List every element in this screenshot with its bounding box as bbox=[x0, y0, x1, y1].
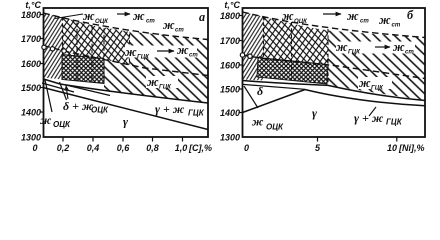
delta solidus thin bbox=[42, 83, 74, 92]
region ж_ОЦК steep strip right bbox=[243, 12, 264, 81]
svg-text:1400: 1400 bbox=[21, 108, 41, 118]
svg-text:1,0: 1,0 bbox=[175, 143, 188, 153]
svg-text:ст: ст bbox=[405, 49, 414, 56]
svg-text:1300: 1300 bbox=[21, 133, 41, 143]
svg-text:t,°C: t,°C bbox=[25, 0, 41, 10]
liquidus right S_botR bbox=[243, 81, 426, 101]
svg-text:10: 10 bbox=[387, 143, 397, 153]
svg-text:ОЦК: ОЦК bbox=[53, 120, 71, 129]
svg-text:1400: 1400 bbox=[220, 108, 240, 118]
svg-text:ОЦК: ОЦК bbox=[95, 18, 109, 25]
svg-text:1700: 1700 bbox=[220, 36, 240, 46]
vertical dashed line V2b bbox=[91, 25, 93, 82]
svg-text:δ + ж: δ + ж bbox=[63, 99, 94, 113]
svg-text:ж: ж bbox=[147, 75, 159, 89]
svg-text:1800: 1800 bbox=[21, 10, 41, 20]
svg-text:1700: 1700 bbox=[21, 34, 41, 44]
svg-text:1500: 1500 bbox=[220, 85, 240, 95]
svg-text:ж: ж bbox=[177, 43, 189, 57]
svg-text:1600: 1600 bbox=[21, 59, 41, 69]
ticks y right panel bbox=[239, 16, 397, 142]
svg-text:γ + ж: γ + ж bbox=[155, 102, 185, 116]
dashed line L3 mid bbox=[44, 46, 209, 76]
svg-text:ГЦК: ГЦК bbox=[386, 118, 403, 127]
svg-text:1600: 1600 bbox=[220, 61, 240, 71]
solid solidus S2 straight bbox=[43, 88, 208, 130]
delta region steep line 2 bbox=[60, 82, 67, 100]
svg-text:ст: ст bbox=[360, 18, 369, 25]
svg-text:ГЦК: ГЦК bbox=[159, 84, 172, 91]
svg-text:ж: ж bbox=[347, 9, 359, 23]
svg-text:ж: ж bbox=[282, 9, 294, 23]
dashed line L2R bbox=[243, 12, 426, 38]
svg-text:ж: ж bbox=[163, 18, 175, 32]
svg-text:б: б bbox=[407, 8, 414, 22]
delta region steep line 1 bbox=[45, 80, 52, 112]
svg-text:ГЦК: ГЦК bbox=[188, 109, 205, 118]
svg-text:ж: ж bbox=[133, 9, 145, 23]
vertical dashed line V3 bbox=[103, 29, 105, 84]
dashed line L3R bbox=[243, 55, 426, 79]
label ж_ГЦК -> ж_ст right bbox=[336, 42, 415, 54]
solidus rising left line bbox=[243, 90, 306, 113]
svg-text:ОЦК: ОЦК bbox=[266, 123, 284, 132]
svg-text:[C],%: [C],% bbox=[188, 143, 212, 153]
arrow from delta label bbox=[66, 86, 68, 100]
region ж_ГЦК band backslash hatch bbox=[104, 32, 208, 104]
vertical dashed V1R bbox=[263, 16, 265, 58]
svg-text:ж: ж bbox=[40, 113, 52, 127]
ticks x right panel bbox=[317, 137, 319, 142]
svg-text:δ: δ bbox=[257, 84, 263, 98]
frame left panel bbox=[44, 8, 209, 137]
svg-text:ГЦК: ГЦК bbox=[348, 49, 361, 56]
svg-text:0,8: 0,8 bbox=[146, 143, 159, 153]
thin line delta top right bbox=[243, 84, 305, 89]
svg-text:ОЦК: ОЦК bbox=[91, 106, 109, 115]
ticks x left panel bbox=[62, 137, 64, 142]
region overlap mesh right backslash bbox=[258, 17, 328, 65]
svg-text:0,6: 0,6 bbox=[117, 143, 131, 153]
svg-text:1300: 1300 bbox=[220, 133, 240, 143]
junction branch line bbox=[66, 85, 110, 96]
region overlap mesh right slash bbox=[258, 17, 328, 65]
svg-text:ж: ж bbox=[125, 45, 137, 59]
svg-text:ж: ж bbox=[336, 40, 348, 54]
label ж_ГЦК region bbox=[146, 76, 178, 88]
svg-text:0: 0 bbox=[32, 143, 37, 153]
ticks y left panel bbox=[40, 15, 183, 142]
svg-text:ГЦК: ГЦК bbox=[137, 54, 150, 61]
label ж_ГЦК region right bbox=[358, 77, 392, 89]
svg-text:1800: 1800 bbox=[220, 11, 240, 21]
svg-text:t,°C: t,°C bbox=[224, 0, 240, 10]
svg-text:ж: ж bbox=[359, 76, 371, 90]
experimental circles on L3 bbox=[42, 45, 46, 49]
svg-text:γ: γ bbox=[123, 115, 128, 129]
frame right panel bbox=[243, 8, 426, 137]
svg-text:ж: ж bbox=[83, 9, 95, 23]
vertical dashed line V2 bbox=[76, 23, 78, 81]
svg-text:0,4: 0,4 bbox=[87, 143, 100, 153]
svg-text:γ + ж: γ + ж bbox=[354, 111, 384, 125]
leader gamma+zh right bbox=[369, 107, 376, 116]
region ж_ОЦК steep slash strip bbox=[44, 13, 63, 80]
solid liquidus S_bot bbox=[44, 79, 209, 103]
region overlap mesh slash part bbox=[62, 18, 130, 65]
svg-text:γ: γ bbox=[312, 106, 317, 120]
dense overlap box bbox=[62, 55, 104, 84]
dashed line L2 upper bbox=[44, 13, 209, 40]
svg-text:ОЦК: ОЦК bbox=[294, 18, 308, 25]
svg-text:ж: ж bbox=[252, 115, 264, 129]
svg-text:а: а bbox=[199, 10, 205, 24]
label ж_ГЦК -> ж_ст bbox=[125, 46, 197, 58]
vertical dashed line V1 bbox=[62, 17, 64, 55]
vertical dashed V2R bbox=[291, 22, 293, 81]
svg-text:ст: ст bbox=[146, 18, 155, 25]
svg-text:ж: ж bbox=[379, 13, 391, 27]
svg-text:0: 0 bbox=[244, 143, 249, 153]
svg-text:ст: ст bbox=[189, 52, 198, 59]
svg-text:0,2: 0,2 bbox=[57, 143, 70, 153]
svg-text:1500: 1500 bbox=[21, 83, 41, 93]
region ж_ГЦК band backslash right bbox=[328, 31, 425, 101]
delta steep line right bbox=[244, 86, 258, 108]
svg-text:[Ni],%: [Ni],% bbox=[398, 143, 425, 153]
svg-text:ст: ст bbox=[175, 27, 184, 34]
svg-text:ст: ст bbox=[392, 22, 401, 29]
circles right panel bbox=[240, 53, 244, 57]
leader under top label bbox=[55, 14, 83, 19]
svg-text:ГЦК: ГЦК bbox=[371, 85, 384, 92]
dense overlap box right bbox=[257, 58, 328, 85]
svg-text:ж: ж bbox=[393, 40, 405, 54]
solidus right curve bbox=[305, 90, 425, 106]
vertical dashed V3R bbox=[327, 29, 329, 84]
region overlap mesh backslash part bbox=[62, 18, 130, 65]
vertical dashed line V4 bbox=[129, 34, 131, 65]
